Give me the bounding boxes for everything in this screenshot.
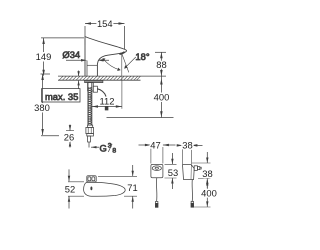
18deg leader [126, 57, 136, 67]
dim max. 35 [42, 71, 80, 103]
svg-text:53: 53 [168, 167, 178, 178]
sensor beam vertical line [121, 54, 123, 76]
spout outlet lip [119, 52, 124, 54]
dim 38 right side [192, 152, 211, 188]
svg-text:400: 400 [201, 188, 217, 199]
svg-text:154: 154 [97, 18, 113, 29]
counter line extension right [141, 75, 167, 77]
G3/8 connector stack [88, 125, 93, 127]
svg-text:52: 52 [65, 183, 75, 194]
svg-text:149: 149 [36, 51, 52, 62]
cable curve to plug [97, 89, 106, 103]
dim 400 right [192, 180, 211, 207]
counter top line [58, 75, 141, 77]
svg-text:8: 8 [112, 148, 116, 155]
svg-text:47: 47 [150, 140, 160, 151]
dim 112 [92, 105, 122, 108]
side cable [191, 180, 193, 202]
svg-text:Ø34: Ø34 [62, 49, 80, 60]
dim 38 top right [177, 144, 203, 164]
beam slant line 18deg [122, 54, 129, 73]
svg-text:max. 35: max. 35 [45, 91, 78, 102]
top view oval body [84, 182, 126, 196]
svg-text:71: 71 [127, 182, 137, 193]
dim 380 [41, 74, 60, 136]
dim 88 [155, 52, 166, 76]
svg-text:38: 38 [182, 140, 192, 151]
arc arrow [103, 59, 119, 70]
dim 53 [165, 153, 177, 189]
dim 52 [68, 169, 84, 208]
dim 71 [98, 165, 137, 209]
dim 26 [66, 125, 74, 148]
counter hatch [59, 76, 141, 80]
svg-text:112: 112 [100, 96, 115, 107]
faucet body outline [85, 37, 127, 77]
washer below counter [85, 80, 103, 82]
svg-text:G: G [100, 142, 107, 153]
dim 149 [41, 38, 84, 76]
svg-text:380: 380 [34, 102, 50, 113]
svg-text:18°: 18° [135, 51, 149, 62]
shank left edge [86, 61, 88, 77]
cable elbow fitting [93, 86, 97, 92]
dim 47 [139, 144, 176, 164]
G 3/8 label [91, 146, 99, 148]
cable plug main view [105, 103, 108, 110]
counter bottom line [58, 79, 141, 81]
mounting hole dot [90, 187, 92, 191]
dim 400 main [107, 76, 174, 117]
svg-text:400: 400 [154, 92, 170, 103]
side connector [194, 166, 197, 171]
shank collar line [87, 64, 97, 66]
svg-text:26: 26 [64, 132, 74, 143]
control box side view [183, 165, 195, 180]
front box cable [155, 178, 157, 202]
svg-text:88: 88 [156, 59, 166, 70]
threaded rod [88, 83, 92, 126]
dim Ø34 [66, 59, 109, 62]
svg-text:38: 38 [202, 168, 212, 179]
shank collar below washer [88, 83, 94, 91]
control box front view [151, 164, 163, 177]
dim 154 [85, 22, 125, 49]
sensor window top view [87, 176, 96, 182]
